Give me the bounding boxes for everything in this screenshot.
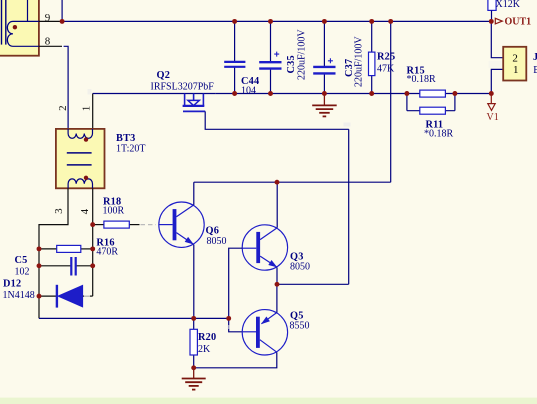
svg-text:BT3: BT3: [116, 133, 135, 144]
node mid rail / R25: [369, 91, 374, 96]
svg-text:47K: 47K: [377, 64, 395, 75]
gray dash R18 lead: [141, 224, 157, 226]
wire Q5 collector down-left: [194, 352, 277, 368]
artifact dash D12 lead: [84, 295, 90, 297]
node Q3 collector rail: [275, 180, 280, 185]
svg-text:8050: 8050: [290, 262, 310, 273]
capacitor C5: [39, 257, 93, 276]
svg-text:104: 104: [241, 86, 256, 97]
polarity dot T1: [13, 25, 17, 29]
resistor R16: [39, 245, 93, 252]
wire Q6 emitter down: [193, 245, 195, 319]
capacitor C35 (polarized): [259, 21, 281, 93]
artifact checker between J pins: [489, 61, 502, 68]
node top rail / C44: [232, 19, 237, 24]
svg-text:OUT1: OUT1: [505, 17, 532, 28]
node mid rail / C35: [268, 91, 273, 96]
svg-text:220uF/100V: 220uF/100V: [297, 29, 308, 80]
node R18 left: [90, 222, 95, 227]
svg-text:V1: V1: [487, 112, 499, 123]
svg-text:9: 9: [45, 12, 51, 24]
node mid rail / C44: [232, 91, 237, 96]
svg-text:3: 3: [53, 208, 65, 214]
svg-text:8: 8: [45, 35, 51, 47]
svg-text:1: 1: [80, 106, 92, 112]
resistor R12 (cut off top): [488, 0, 496, 21]
node R20 bottom / Q5 collector: [191, 365, 196, 370]
artifact dash Q5 base corner: [228, 325, 231, 329]
wire BT3 pin3 path: [39, 188, 68, 318]
resistor R20: [190, 318, 197, 367]
wire mid rail: [216, 93, 492, 95]
node R16 right: [90, 246, 95, 251]
node V1: [489, 91, 494, 96]
svg-text:4: 4: [79, 208, 91, 214]
connector J: [491, 21, 526, 93]
svg-text:1: 1: [513, 64, 519, 76]
port OUT1: [495, 18, 502, 24]
node C5 right: [90, 263, 95, 268]
transistor Q3 (NPN 8050): [242, 225, 287, 270]
svg-text:R25: R25: [377, 52, 395, 63]
node top rail / C35: [268, 19, 273, 24]
svg-text:C35: C35: [286, 55, 297, 73]
node mid rail / C37 ground: [322, 91, 327, 96]
node D12 left: [37, 294, 42, 299]
svg-text:J: J: [533, 52, 537, 63]
ground below R20: [182, 368, 206, 390]
svg-text:2: 2: [512, 52, 518, 64]
node top rail / R25: [369, 19, 374, 24]
svg-text:C5: C5: [15, 255, 28, 266]
svg-text:E: E: [533, 65, 537, 76]
svg-text:Q6: Q6: [206, 226, 220, 237]
pin 9: [39, 20, 62, 22]
ground below C37: [312, 94, 337, 117]
svg-text:470R: 470R: [96, 247, 118, 258]
wire stub up from node: [61, 0, 63, 21]
power port V1: [488, 94, 495, 111]
wire collector rail y182: [194, 181, 391, 183]
svg-text:100R: 100R: [103, 206, 125, 217]
svg-text:1N4148: 1N4148: [3, 290, 35, 301]
svg-text:2K: 2K: [198, 344, 211, 355]
capacitor C37 (polarized): [313, 21, 335, 93]
wire vertical to emitter node: [348, 129, 350, 284]
resistor R25: [369, 21, 375, 93]
svg-text:Q2: Q2: [157, 70, 171, 81]
artifact fuzz above gate corner: [344, 123, 351, 127]
wire Q3 emitter down: [276, 268, 278, 285]
svg-text:2: 2: [57, 105, 69, 111]
node OUT1: [489, 19, 494, 24]
node R16 left: [37, 246, 42, 251]
svg-text:R20: R20: [198, 332, 216, 343]
svg-text:1T:20T: 1T:20T: [116, 144, 146, 155]
wire emitter node horizontal: [277, 283, 349, 285]
artifact gap pin8: [62, 45, 64, 48]
wire top rail: [62, 20, 491, 22]
node top rail / T1 pin9: [60, 19, 65, 24]
node R20 top / Q6 emitter: [191, 316, 196, 321]
node top rail / drop wire: [388, 19, 393, 24]
node top rail / C37: [322, 19, 327, 24]
wire Q6 collector up: [193, 182, 195, 205]
polarity dot BT3 bottom: [84, 176, 88, 180]
wire long vertical from top rail: [390, 21, 392, 182]
svg-text:*0.18R: *0.18R: [407, 74, 437, 85]
svg-text:D12: D12: [3, 279, 21, 290]
node Q3 emitter / Q5 emitter: [275, 282, 280, 287]
transformer T1 (cut off top-left): [0, 0, 39, 56]
svg-text:102: 102: [15, 266, 30, 277]
resistor R11: [407, 94, 455, 115]
diode D12: [39, 285, 93, 308]
wire pin8 to BT3 pin2: [63, 46, 68, 129]
svg-text:*0.18R: *0.18R: [424, 129, 454, 140]
wire Q2 gate down and right: [205, 111, 349, 129]
wire bottom rail y318: [39, 317, 229, 319]
node R15 right: [452, 91, 457, 96]
svg-text:X12K: X12K: [496, 0, 521, 10]
wire BT3 pin1 to Q2 drain: [92, 94, 94, 129]
wire Q5 emitter up: [276, 284, 278, 312]
svg-text:IRFSL3207PbF: IRFSL3207PbF: [151, 82, 215, 93]
svg-text:8550: 8550: [290, 321, 310, 332]
green band bottom: [0, 398, 537, 404]
transistor Q5 (PNP 8550): [242, 310, 287, 355]
svg-text:220uF/100V: 220uF/100V: [354, 36, 365, 87]
capacitor C44: [224, 21, 245, 93]
wire BT3 pin4 path: [92, 188, 94, 296]
node C5 left: [37, 263, 42, 268]
pin 8: [39, 45, 62, 47]
resistor R15: [420, 90, 446, 97]
node base bus: [226, 316, 231, 321]
transformer BT3: [56, 129, 105, 188]
mosfet Q2 IRFSL3207PbF: [183, 94, 206, 112]
svg-text:8050: 8050: [207, 236, 227, 247]
artifact fuzz near BT3 pin1 corner: [88, 89, 92, 95]
wire base bus: [229, 248, 243, 332]
node R15 left: [404, 91, 409, 96]
polarity dot BT3 top: [84, 137, 88, 141]
transistor Q6 (NPN 8050): [159, 202, 204, 247]
wire Q3 collector up: [276, 182, 278, 228]
resistor R18: [93, 221, 140, 228]
